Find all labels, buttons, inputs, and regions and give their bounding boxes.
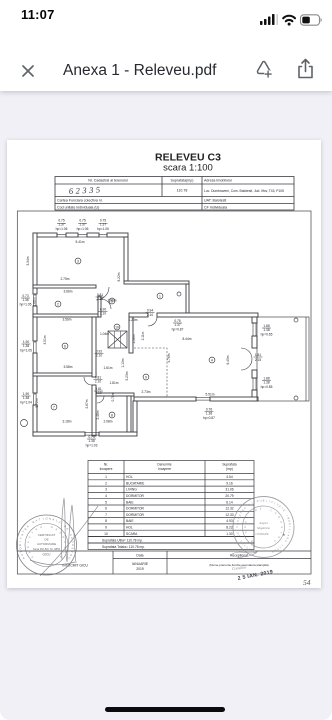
svg-text:9.16: 9.16: [226, 481, 233, 485]
svg-text:1.13m: 1.13m: [121, 358, 125, 367]
svg-text:9: 9: [145, 375, 147, 379]
svg-text:2.10: 2.10: [100, 312, 107, 316]
svg-text:4: 4: [105, 494, 107, 498]
svg-text:5.41m: 5.41m: [75, 240, 84, 244]
svg-text:0.94: 0.94: [147, 309, 154, 313]
svg-text:DORMITOR: DORMITOR: [126, 494, 145, 498]
svg-text:1.81m: 1.81m: [109, 381, 118, 385]
svg-text:2019: 2019: [136, 567, 144, 571]
svg-text:2.10: 2.10: [147, 313, 154, 317]
svg-text:hp=1.06: hp=1.06: [97, 227, 109, 231]
svg-text:Incapere: Incapere: [158, 467, 171, 471]
svg-text:12.32: 12.32: [225, 507, 233, 511]
svg-text:1.66m: 1.66m: [107, 299, 116, 303]
svg-text:hp=0.65: hp=0.65: [261, 333, 273, 337]
svg-text:1.06m: 1.06m: [132, 334, 136, 343]
svg-text:12.33: 12.33: [225, 513, 233, 517]
svg-text:2.15: 2.15: [255, 358, 262, 362]
svg-text:scara 1:100: scara 1:100: [163, 163, 213, 174]
svg-text:3: 3: [105, 488, 107, 492]
svg-text:2.73m: 2.73m: [141, 390, 150, 394]
svg-text:Cod unitate individuala (U): Cod unitate individuala (U): [57, 205, 99, 209]
svg-text:9: 9: [105, 526, 107, 530]
svg-text:5.51m: 5.51m: [205, 393, 214, 397]
svg-text:O: O: [45, 517, 47, 521]
svg-text:2.67m: 2.67m: [85, 399, 89, 408]
svg-text:2: 2: [57, 302, 59, 306]
svg-text:R: R: [18, 544, 22, 546]
svg-text:10: 10: [115, 325, 119, 329]
svg-text:2.10: 2.10: [95, 391, 102, 395]
svg-text:Nr.: Nr.: [104, 463, 108, 467]
svg-text:Magdalena: Magdalena: [256, 527, 270, 530]
svg-text:8.22m: 8.22m: [117, 272, 121, 281]
svg-text:1.37: 1.37: [79, 223, 86, 227]
svg-text:CF Individuala: CF Individuala: [204, 205, 227, 209]
svg-text:6.14: 6.14: [226, 500, 233, 504]
svg-text:1.81: 1.81: [255, 353, 262, 357]
svg-text:5: 5: [105, 500, 107, 504]
svg-text:CONSILIER: CONSILIER: [256, 533, 269, 536]
svg-text:4.93: 4.93: [226, 519, 233, 523]
svg-text:1.38: 1.38: [206, 412, 213, 416]
svg-text:1.37: 1.37: [174, 323, 181, 327]
svg-text:hp=1.05: hp=1.05: [20, 349, 32, 353]
svg-text:8.22: 8.22: [226, 526, 233, 530]
svg-text:4: 4: [211, 358, 213, 362]
svg-text:HOL: HOL: [126, 475, 133, 479]
svg-text:1.38: 1.38: [23, 344, 30, 348]
svg-text:Cartea Funciara colectiva nr.: Cartea Funciara colectiva nr.: [57, 198, 103, 202]
svg-text:2.08m: 2.08m: [103, 420, 112, 424]
svg-text:1.04m: 1.04m: [100, 332, 109, 336]
svg-text:1.38: 1.38: [88, 439, 95, 443]
svg-text:3.34m: 3.34m: [26, 256, 30, 265]
svg-text:Adresa Imobilului: Adresa Imobilului: [204, 179, 232, 183]
svg-text:2.75m: 2.75m: [60, 277, 69, 281]
svg-text:62335: 62335: [69, 184, 103, 196]
svg-text:110.78: 110.78: [177, 189, 188, 193]
svg-text:Suprafata(mp): Suprafata(mp): [171, 179, 194, 183]
svg-text:HOL: HOL: [126, 526, 133, 530]
svg-text:Incapere: Incapere: [100, 467, 113, 471]
svg-text:BAIE: BAIE: [126, 500, 134, 504]
svg-text:6: 6: [64, 344, 66, 348]
svg-text:3: 3: [77, 259, 79, 263]
svg-text:3.56m: 3.56m: [62, 318, 71, 322]
svg-text:Seria RO-B-F Nr. 0853: Seria RO-B-F Nr. 0853: [33, 547, 61, 551]
svg-text:2.10: 2.10: [97, 297, 104, 301]
svg-text:Denumire: Denumire: [157, 463, 171, 467]
svg-text:1.38: 1.38: [263, 381, 270, 385]
svg-text:BAIE: BAIE: [126, 519, 134, 523]
svg-text:5.72m: 5.72m: [35, 398, 39, 407]
svg-text:hp=0.87: hp=0.87: [203, 416, 215, 420]
svg-text:2.46m: 2.46m: [96, 410, 100, 419]
svg-text:6.40m: 6.40m: [226, 355, 230, 364]
svg-text:hp=1.03: hp=1.03: [86, 444, 98, 448]
svg-text:hp=1.06: hp=1.06: [56, 227, 68, 231]
svg-text:54: 54: [303, 578, 311, 587]
svg-text:Suprafata: Suprafata: [222, 463, 236, 467]
svg-text:SCARA: SCARA: [126, 532, 138, 536]
svg-text:2.10: 2.10: [96, 354, 103, 358]
svg-text:DORMITOR: DORMITOR: [126, 513, 145, 517]
svg-text:AUTORIZARE: AUTORIZARE: [37, 542, 56, 546]
svg-text:1.61m: 1.61m: [103, 366, 112, 370]
svg-text:hp=0.85: hp=0.85: [261, 385, 273, 389]
svg-text:8: 8: [105, 519, 107, 523]
svg-text:O: O: [244, 526, 247, 528]
svg-text:2.11m: 2.11m: [141, 331, 145, 340]
svg-text:CERTIFICAT: CERTIFICAT: [38, 533, 56, 537]
svg-text:hp=1.04: hp=1.04: [20, 401, 32, 405]
svg-text:Anghel: Anghel: [258, 521, 268, 525]
svg-text:C: C: [235, 526, 239, 528]
svg-text:B: B: [263, 499, 265, 503]
svg-text:8: 8: [111, 413, 113, 417]
svg-text:6: 6: [105, 507, 107, 511]
svg-text:Suprafata Totala= 110.78 mp.: Suprafata Totala= 110.78 mp.: [102, 545, 145, 549]
svg-text:Nr. Cadastral al terenului: Nr. Cadastral al terenului: [88, 179, 128, 183]
svg-text:UAT: Balotesti: UAT: Balotesti: [204, 198, 227, 202]
svg-text:GICU: GICU: [43, 553, 52, 557]
svg-text:2.10: 2.10: [95, 380, 102, 384]
svg-text:3.51m: 3.51m: [43, 335, 47, 344]
svg-text:7: 7: [105, 513, 107, 517]
svg-text:1.38: 1.38: [23, 396, 30, 400]
svg-text:4.54: 4.54: [226, 475, 233, 479]
svg-text:hp=1.06: hp=1.06: [77, 227, 89, 231]
svg-text:1.36: 1.36: [22, 298, 29, 302]
svg-text:3.18m: 3.18m: [62, 420, 71, 424]
svg-text:(mp): (mp): [226, 467, 233, 471]
svg-text:Data: Data: [136, 554, 143, 558]
svg-text:1: 1: [159, 294, 161, 298]
svg-text:5.23m: 5.23m: [125, 371, 129, 380]
svg-text:hp=1.05: hp=1.05: [20, 303, 32, 307]
svg-text:7: 7: [53, 405, 55, 409]
svg-text:Loc. Dumbraveni, Com. Balotest: Loc. Dumbraveni, Com. Balotesti, Jud. Il…: [204, 189, 284, 193]
svg-text:20.79: 20.79: [225, 494, 233, 498]
svg-text:1.30: 1.30: [226, 532, 233, 536]
svg-text:10: 10: [104, 532, 108, 536]
svg-text:31.06: 31.06: [225, 488, 233, 492]
svg-text:IANUARIE: IANUARIE: [132, 562, 149, 566]
svg-text:2: 2: [105, 481, 107, 485]
svg-text:DORMITOR: DORMITOR: [126, 507, 145, 511]
svg-text:hp=0.87: hp=0.87: [172, 328, 184, 332]
svg-text:BUCATARIE: BUCATARIE: [126, 481, 145, 485]
svg-text:1.37: 1.37: [58, 223, 65, 227]
svg-text:1: 1: [105, 475, 107, 479]
svg-text:3.58m: 3.58m: [63, 365, 72, 369]
svg-text:★: ★: [282, 532, 286, 537]
svg-text:1.38: 1.38: [263, 328, 270, 332]
svg-text:1.37: 1.37: [100, 223, 107, 227]
svg-text:8.44m: 8.44m: [182, 337, 191, 341]
svg-text:DE: DE: [44, 538, 48, 542]
svg-text:3.66m: 3.66m: [63, 290, 72, 294]
svg-text:LIVING: LIVING: [126, 488, 137, 492]
svg-text:Receptionat: Receptionat: [230, 554, 248, 558]
svg-text:4.76m: 4.76m: [167, 353, 171, 362]
svg-text:0.78m: 0.78m: [111, 392, 115, 401]
svg-text:1.68m: 1.68m: [33, 297, 37, 306]
svg-text:Suprafata Utila= 110.78 mp.: Suprafata Utila= 110.78 mp.: [102, 539, 143, 543]
svg-text:1.23m: 1.23m: [128, 318, 137, 322]
